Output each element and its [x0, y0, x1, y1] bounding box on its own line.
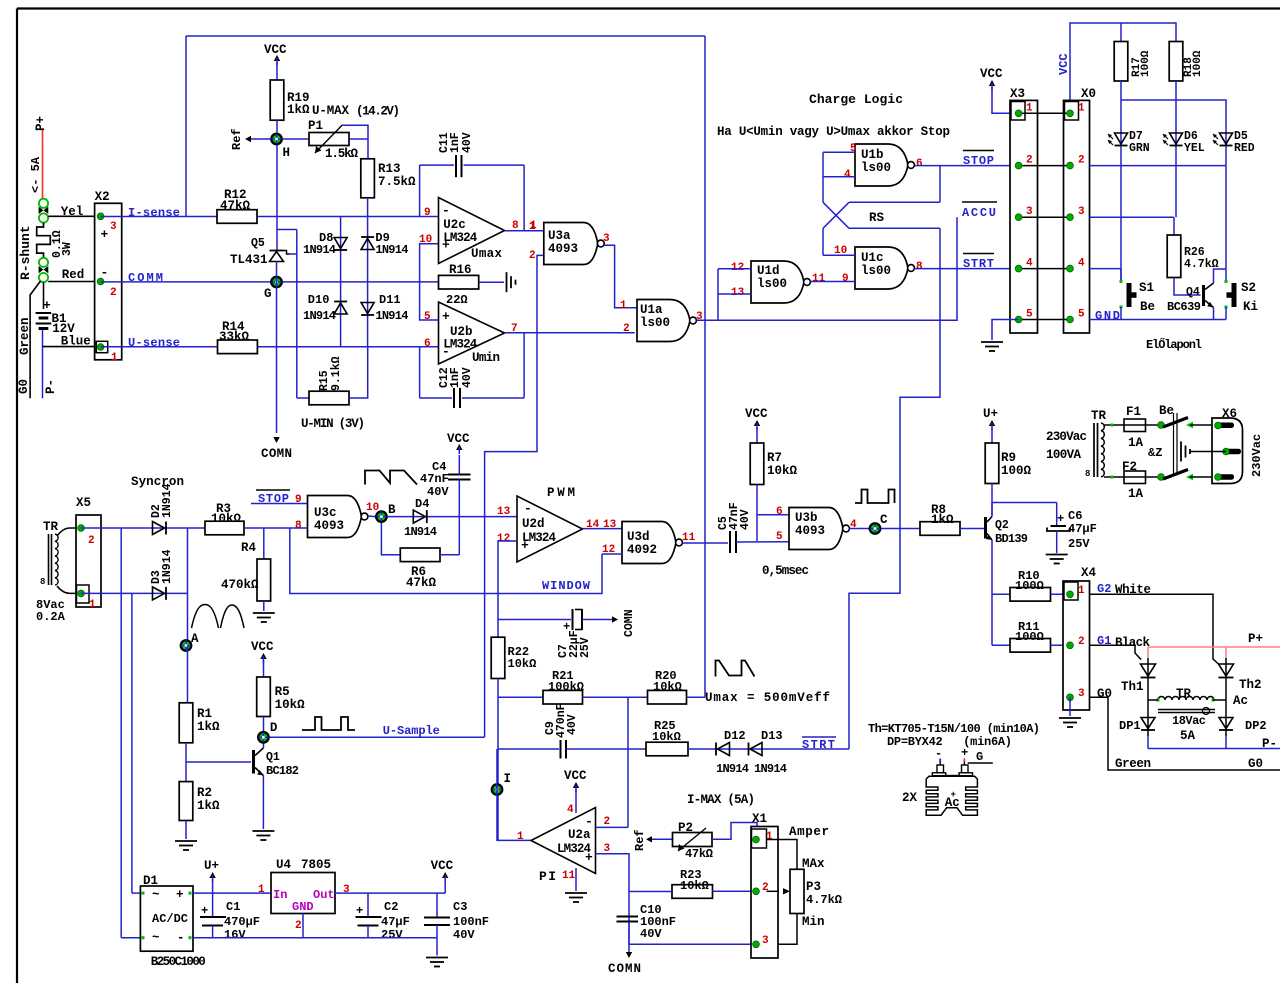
svg-text:VCC: VCC: [745, 407, 768, 421]
svg-text:10kΩ: 10kΩ: [653, 680, 682, 694]
wire U3a pin2 from U2b out: [537, 255, 544, 332]
svg-text:S2: S2: [1241, 281, 1256, 295]
svg-text:F1: F1: [1126, 405, 1141, 419]
svg-text:Umin: Umin: [472, 351, 500, 365]
svg-text:1.5kΩ: 1.5kΩ: [325, 147, 358, 161]
svg-text:Blue: Blue: [61, 335, 91, 349]
svg-text:ls00: ls00: [861, 264, 891, 278]
svg-text:P+: P+: [34, 116, 48, 131]
svg-text:100VA: 100VA: [1046, 448, 1081, 462]
svg-text:Black: Black: [1115, 636, 1150, 650]
svg-text:1N914: 1N914: [375, 309, 408, 323]
wire U4 Out line: [335, 892, 445, 894]
svg-text:U3d: U3d: [627, 530, 650, 544]
svg-text:1: 1: [1078, 102, 1085, 114]
svg-text:LM324: LM324: [557, 842, 591, 856]
svg-text:~: ~: [152, 931, 160, 945]
resistor R1 1k: [179, 703, 193, 743]
svg-text:LM324: LM324: [522, 531, 556, 545]
svg-text:1N914: 1N914: [716, 762, 749, 776]
svg-text:X5: X5: [76, 496, 91, 510]
svg-text:I-sense: I-sense: [128, 206, 180, 220]
svg-text:~: ~: [152, 888, 160, 902]
svg-text:X1: X1: [752, 812, 767, 826]
diode D11 1N914: [367, 282, 369, 347]
svg-text:Ref: Ref: [230, 128, 244, 150]
svg-text:100Ω: 100Ω: [1001, 464, 1032, 478]
net label STRT: [802, 736, 836, 738]
resistor R13 7.5k: [361, 159, 375, 198]
wire U1d inputs from U1a out: [718, 268, 751, 270]
svg-text:3: 3: [1078, 206, 1085, 218]
svg-text:U+: U+: [983, 407, 998, 421]
wire U1c pin10: [823, 254, 855, 256]
gate U3b 4093: [789, 508, 843, 550]
wire U2c pin10 to COMM: [420, 244, 439, 282]
pin X2.3: [97, 213, 104, 220]
wire X3-X0 link row 5: [1019, 319, 1070, 321]
node I: [492, 784, 502, 794]
resistor R12 47k: [217, 210, 257, 224]
svg-text:Syncron: Syncron: [131, 475, 184, 489]
svg-text:TL431: TL431: [230, 253, 268, 267]
svg-text:100kΩ: 100kΩ: [548, 680, 584, 694]
wire TL431 ref loop: [277, 229, 297, 231]
resistor R7 10k: [750, 443, 764, 485]
svg-text:G: G: [976, 750, 983, 764]
svg-text:Green: Green: [1115, 757, 1151, 771]
svg-text:Out: Out: [313, 888, 335, 902]
wire X5.2 line: [81, 527, 205, 529]
svg-text:2: 2: [1026, 155, 1033, 167]
battery B1 12V: [43, 282, 45, 309]
svg-text:D13: D13: [761, 729, 783, 743]
node B: [376, 511, 386, 521]
diode D10 1N914: [340, 282, 342, 347]
wire TL431 anode down to COMN flag: [276, 262, 278, 434]
diode D4 1N914: [388, 516, 517, 518]
svg-text:I-MAX (5A): I-MAX (5A): [687, 793, 755, 807]
wire X1.2 wiper: [767, 890, 780, 892]
wire D2/D3 join to A: [187, 528, 189, 646]
wire U2a pin2 up: [596, 826, 629, 828]
svg-text:VCC: VCC: [264, 43, 287, 57]
gate U3c 4093: [308, 496, 362, 538]
wire X5.1 line: [81, 592, 188, 594]
svg-text:11: 11: [682, 532, 696, 544]
pin X5.1: [78, 590, 85, 597]
wire STOP stub to U3c pin9: [251, 503, 308, 505]
svg-text:R7: R7: [767, 451, 782, 465]
wire TR to F2: [1104, 476, 1124, 478]
ground below X3: [981, 341, 1003, 343]
svg-text:TR: TR: [43, 520, 59, 534]
svg-text:2: 2: [604, 816, 611, 828]
svg-text:13: 13: [497, 506, 511, 518]
wire R4 tap: [263, 528, 265, 559]
svg-text:U4: U4: [276, 858, 292, 872]
svg-text:10kΩ: 10kΩ: [275, 698, 306, 712]
svg-text:5: 5: [1026, 309, 1033, 321]
wire F2 to switch: [1146, 476, 1162, 478]
op-amp U2a LM324 (mirrored): [531, 808, 596, 874]
svg-text:D10: D10: [308, 293, 330, 307]
svg-text:230Vac: 230Vac: [1250, 434, 1264, 477]
svg-text:R-shunt: R-shunt: [18, 225, 33, 280]
wire X3-X0 link row 2: [1019, 165, 1070, 167]
svg-text:1kΩ: 1kΩ: [931, 513, 954, 527]
svg-text:D11: D11: [379, 293, 401, 307]
svg-text:Be: Be: [1140, 300, 1155, 314]
svg-text:4: 4: [1026, 258, 1033, 270]
wire Blue: [43, 346, 101, 348]
gate U1a ls00: [637, 300, 690, 342]
svg-text:G: G: [264, 287, 272, 301]
svg-text:1kΩ: 1kΩ: [197, 720, 220, 734]
svg-text:Green: Green: [18, 317, 32, 355]
wire R8 to Q2 base: [960, 528, 984, 530]
svg-text:6: 6: [424, 338, 431, 350]
wire R23 line: [629, 891, 672, 893]
pin X3.4: [1015, 265, 1022, 272]
wire B to R6: [381, 523, 400, 555]
resistor R20 10k: [648, 690, 687, 704]
svg-text:1N914: 1N914: [754, 762, 787, 776]
icon pulse wave 2: [855, 490, 895, 504]
svg-text:X2: X2: [95, 190, 110, 204]
svg-text:1N914: 1N914: [161, 483, 174, 518]
wire STRT right of X0 to S1 column: [1090, 268, 1122, 270]
diode D12 1N914: [718, 743, 730, 756]
svg-text:VCC: VCC: [1057, 53, 1071, 75]
svg-text:U-Sample: U-Sample: [383, 724, 440, 738]
wire U1b inputs tied: [823, 151, 855, 153]
svg-text:1N914: 1N914: [303, 243, 336, 257]
wire R13 bottom: [367, 198, 369, 217]
svg-text:3: 3: [603, 233, 610, 245]
svg-text:U1a: U1a: [640, 303, 663, 317]
svg-text:2: 2: [295, 920, 302, 932]
svg-text:COMN: COMN: [608, 962, 641, 976]
pin X3.2: [1015, 162, 1022, 169]
svg-text:LM324: LM324: [443, 231, 477, 245]
svg-text:GRN: GRN: [1129, 142, 1150, 155]
svg-text:47kΩ: 47kΩ: [406, 576, 437, 590]
svg-text:+: +: [951, 790, 956, 800]
svg-text:BC182: BC182: [266, 764, 299, 778]
diode D3 1N914: [153, 587, 165, 600]
svg-text:X3: X3: [1010, 87, 1025, 101]
svg-text:Th2: Th2: [1239, 678, 1262, 692]
svg-text:100Ω: 100Ω: [1015, 630, 1044, 644]
wire U2b output: [505, 332, 635, 334]
resistor R5 10k: [257, 677, 271, 717]
svg-text:ACCU: ACCU: [962, 206, 996, 220]
svg-text:BC639: BC639: [1167, 300, 1201, 314]
svg-text:PI: PI: [539, 869, 556, 884]
svg-text:25V: 25V: [579, 637, 592, 658]
svg-text:U1d: U1d: [757, 264, 780, 278]
svg-text:10kΩ: 10kΩ: [767, 464, 798, 478]
wire R19 to H: [276, 120, 278, 250]
net label STOP: [963, 150, 994, 152]
svg-text:100Ω: 100Ω: [1192, 50, 1204, 77]
diode D13 1N914: [750, 743, 762, 756]
wire x628 column: [627, 697, 629, 749]
svg-text:Yel: Yel: [61, 205, 84, 219]
svg-text:9: 9: [424, 207, 431, 219]
resistor R6 47k: [400, 548, 440, 562]
wire U1b output STOP: [915, 165, 1019, 167]
svg-text:G0: G0: [17, 379, 31, 394]
wire P1 wiper loop: [342, 125, 368, 159]
wire White to Th2 gate: [1090, 594, 1219, 664]
svg-text:U-MIN (3V): U-MIN (3V): [301, 417, 365, 431]
icon pulse wave: [302, 717, 355, 730]
icon sawtooth 3: [716, 661, 755, 677]
svg-text:5: 5: [850, 143, 857, 155]
node C: [870, 523, 880, 533]
wire R3 to U3c pin8: [244, 527, 308, 529]
svg-text:8: 8: [916, 261, 923, 273]
wire C10 bottom / COMN flag: [628, 922, 630, 956]
svg-text:100Ω: 100Ω: [1140, 50, 1152, 77]
wire X3-X0 link row 3: [1019, 216, 1070, 218]
svg-text:R1: R1: [197, 707, 212, 721]
svg-text:5: 5: [776, 531, 783, 543]
svg-text:P3: P3: [806, 880, 821, 894]
wire Black to Th1 gate: [1090, 645, 1142, 659]
gate U3d 4092: [622, 522, 676, 564]
svg-text:A: A: [191, 632, 199, 646]
wire P+ rail (red): [1148, 646, 1280, 648]
op-amp U2b LM324: [439, 302, 505, 364]
wire P+ red: [42, 130, 44, 199]
svg-text:B: B: [388, 503, 396, 517]
wire C9 to R25: [628, 748, 646, 750]
svg-text:12: 12: [731, 262, 744, 274]
svg-text:1: 1: [258, 884, 265, 896]
svg-text:0.2A: 0.2A: [36, 610, 66, 624]
svg-text:U2d: U2d: [522, 517, 545, 531]
svg-text:C2: C2: [384, 900, 398, 914]
svg-text:D12: D12: [724, 729, 746, 743]
svg-text:4: 4: [844, 169, 851, 181]
wire COMM line: [101, 281, 439, 283]
op-amp U2d LM324 PWM: [517, 496, 583, 562]
svg-text:4093: 4093: [795, 524, 825, 538]
svg-text:+: +: [961, 746, 968, 760]
resistor R18 100: [1169, 42, 1183, 82]
resistor R21 100k: [543, 690, 583, 704]
svg-text:230Vac: 230Vac: [1046, 430, 1087, 444]
svg-text:U-MAX: U-MAX: [312, 104, 349, 118]
wire Red: [48, 281, 100, 283]
wire R18 to D6: [1175, 81, 1177, 217]
svg-text:4093: 4093: [548, 242, 578, 256]
svg-text:GND: GND: [1095, 309, 1120, 323]
wire R7 to U3b pin6 and C5 line: [756, 485, 758, 542]
svg-text:DP1: DP1: [1119, 719, 1141, 733]
svg-text:40V: 40V: [640, 927, 662, 941]
svg-text:7.5kΩ: 7.5kΩ: [378, 175, 416, 189]
svg-text:+: +: [442, 309, 450, 324]
resistor R3 10k: [205, 521, 244, 535]
resistor R11 100: [992, 644, 1010, 646]
svg-text:40V: 40V: [461, 132, 474, 153]
svg-text:Be: Be: [1159, 404, 1174, 418]
svg-text:1N914: 1N914: [375, 243, 408, 257]
pin X4.1: [1067, 591, 1074, 598]
wire AC drops to rectifier: [120, 528, 122, 938]
svg-text:4092: 4092: [627, 543, 657, 557]
svg-text:5: 5: [424, 311, 431, 323]
svg-text:9: 9: [842, 273, 849, 285]
thyristor Th1: [1147, 658, 1149, 700]
wire U-Sample: [270, 736, 485, 738]
svg-text:LM324: LM324: [443, 338, 477, 352]
gate U1c ls00: [855, 247, 908, 289]
net label STOP at U3c: [256, 489, 290, 491]
svg-text:9.1kΩ: 9.1kΩ: [330, 356, 343, 391]
wire R25 to D12: [688, 748, 849, 750]
svg-text:RS: RS: [869, 211, 885, 225]
wire window feedback down: [485, 333, 537, 738]
wire U-sense line: [101, 346, 218, 348]
svg-text:S1: S1: [1139, 281, 1154, 295]
svg-text:2: 2: [623, 323, 630, 335]
wire Q2 collector node: [991, 503, 993, 517]
svg-text:R9: R9: [1001, 451, 1016, 465]
svg-text:33kΩ: 33kΩ: [219, 330, 250, 344]
svg-text:6: 6: [916, 158, 923, 170]
resistor R19 1k: [270, 80, 284, 120]
svg-text:47nF: 47nF: [420, 472, 449, 486]
wire U2a pin3 down: [596, 854, 630, 945]
node A: [181, 640, 191, 650]
wire C9 line: [498, 748, 559, 750]
pin X2.1: [97, 344, 104, 351]
pin X0.3: [1067, 214, 1074, 221]
ground at X6 pin2: [1180, 442, 1182, 462]
svg-text:11: 11: [562, 870, 576, 882]
node H: [271, 134, 281, 144]
resistor R10 100: [992, 593, 1010, 595]
svg-text:ElŐlaponl: ElŐlaponl: [1146, 337, 1202, 352]
svg-text:Min: Min: [802, 915, 825, 929]
svg-text:3: 3: [343, 884, 350, 896]
wire R2 to ground: [185, 821, 187, 840]
wire battery to P-: [42, 330, 44, 398]
svg-text:AC/DC: AC/DC: [152, 912, 188, 926]
pin X3.1: [1015, 110, 1022, 117]
svg-text:40V: 40V: [461, 367, 474, 388]
wire G0 to bottom rail: [1090, 697, 1280, 770]
svg-text:8: 8: [295, 520, 302, 532]
diode DP1: [1147, 700, 1149, 736]
svg-text:U2a: U2a: [568, 828, 591, 842]
wire R17 to D7 and D5 branch: [1120, 81, 1122, 282]
svg-text:100Ω: 100Ω: [1015, 579, 1044, 593]
gate U3a 4093: [544, 223, 598, 265]
wire I-sense to top rail: [101, 216, 217, 218]
pin X0.4: [1067, 265, 1074, 272]
svg-text:D4: D4: [415, 497, 429, 511]
svg-text:1: 1: [89, 599, 96, 611]
svg-text:12: 12: [497, 533, 510, 545]
diode D2 1N914: [153, 522, 165, 535]
LED D5 RED: [1220, 133, 1233, 144]
wire A to R1: [187, 646, 189, 703]
svg-text:YEL: YEL: [1184, 142, 1205, 155]
svg-text:C1: C1: [226, 900, 240, 914]
wire U2c output: [505, 230, 544, 232]
resistor R25 10k: [646, 742, 688, 756]
svg-text:X4: X4: [1081, 566, 1097, 580]
svg-text:Th1: Th1: [1121, 680, 1144, 694]
svg-text:Red: Red: [62, 268, 85, 282]
svg-text:16V: 16V: [224, 928, 246, 942]
svg-text:U-sense: U-sense: [128, 336, 180, 350]
svg-text:VCC: VCC: [251, 640, 274, 654]
svg-text:10kΩ: 10kΩ: [652, 730, 681, 744]
wire I to U2a output: [497, 749, 531, 840]
svg-text:4: 4: [567, 804, 574, 816]
pin X1.2: [753, 888, 760, 895]
svg-text:R2: R2: [197, 786, 212, 800]
wire R22 column down: [497, 697, 499, 840]
svg-text:ls00: ls00: [640, 316, 670, 330]
svg-text:MAx: MAx: [802, 857, 825, 871]
svg-text:40V: 40V: [566, 714, 579, 735]
wire X3-X0 link row 1: [1019, 112, 1070, 114]
svg-text:Amper: Amper: [789, 825, 829, 839]
wire P- rail: [1148, 748, 1280, 750]
svg-text:4: 4: [1078, 258, 1085, 270]
resistor R4 470k: [257, 559, 271, 601]
wire U1c output STRT: [915, 268, 1019, 270]
diode DP2: [1225, 700, 1227, 736]
wire Q2 emitter column: [991, 540, 993, 645]
node D: [258, 732, 268, 742]
svg-text:25V: 25V: [381, 928, 403, 942]
svg-text:U+: U+: [204, 859, 219, 873]
wire U3c out to B: [368, 515, 375, 518]
svg-text:2X: 2X: [902, 791, 918, 805]
svg-text:RED: RED: [1234, 142, 1255, 155]
wire ACCU right of X0: [1090, 216, 1175, 218]
svg-text:P1: P1: [308, 119, 323, 133]
wire STRT net path: [849, 269, 940, 749]
svg-text:100nF: 100nF: [453, 915, 489, 929]
pin X5.2: [78, 525, 85, 532]
svg-text:3: 3: [1078, 688, 1085, 700]
svg-text:47µF: 47µF: [381, 915, 410, 929]
LED D7 GRN: [1115, 133, 1128, 144]
svg-text:Ha U<Umin vagy U>Umax akkor St: Ha U<Umin vagy U>Umax akkor Stop: [717, 125, 950, 139]
thyristor Th2: [1225, 658, 1227, 700]
svg-text:STOP: STOP: [963, 154, 994, 168]
svg-text:Q2: Q2: [995, 519, 1009, 532]
svg-text:5: 5: [1078, 309, 1085, 321]
svg-text:STRT: STRT: [963, 257, 994, 271]
resistor R26 4.7k: [1173, 217, 1175, 235]
pin X3.5: [1015, 316, 1022, 323]
svg-text:8: 8: [40, 577, 45, 587]
svg-text:1N914: 1N914: [161, 549, 174, 584]
svg-text:R5: R5: [275, 685, 290, 699]
svg-text:G0: G0: [1097, 687, 1112, 701]
